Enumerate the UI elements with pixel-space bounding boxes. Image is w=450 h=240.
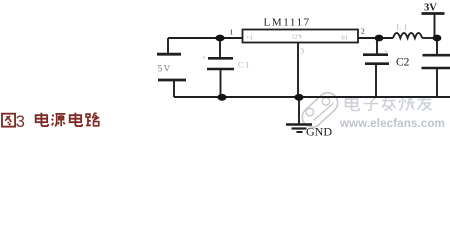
svg-text:2: 2: [361, 27, 365, 36]
svg-text:+1: +1: [246, 35, 253, 42]
svg-text:L1: L1: [397, 23, 410, 32]
svg-text:3V: 3V: [424, 3, 437, 14]
svg-text:C2: C2: [396, 57, 410, 69]
svg-text:+: +: [384, 48, 388, 56]
svg-text:www.elecfans.com: www.elecfans.com: [339, 117, 445, 130]
svg-text:C1: C1: [238, 61, 251, 70]
svg-text:3: 3: [301, 48, 305, 56]
svg-text:12'9: 12'9: [292, 35, 302, 41]
svg-text:61: 61: [342, 35, 349, 42]
svg-text:+: +: [202, 54, 206, 62]
svg-text:1: 1: [230, 28, 234, 37]
svg-text:GND: GND: [306, 125, 332, 138]
svg-text:3: 3: [16, 113, 25, 131]
svg-text:LM1117: LM1117: [264, 17, 311, 29]
svg-text:5V: 5V: [158, 65, 172, 75]
